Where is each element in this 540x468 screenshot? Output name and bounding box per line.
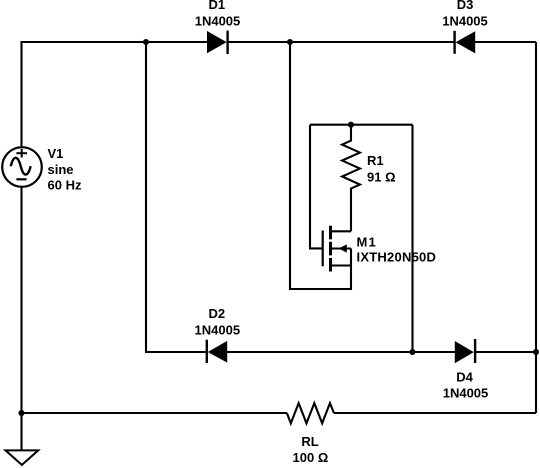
diode D4 (pointing right)	[455, 339, 475, 363]
svg-text:D1: D1	[208, 0, 225, 12]
transistor M1 (N-channel MOSFET)	[323, 226, 351, 272]
svg-text:RL: RL	[301, 434, 318, 449]
inner box left edge down to gate tap	[310, 125, 322, 249]
V1 plus mark	[16, 149, 27, 158]
svg-text:1N4005: 1N4005	[443, 386, 489, 401]
wire bottom rail right segment (right rail to RL)	[334, 412, 536, 414]
svg-text:D3: D3	[457, 0, 474, 12]
inner box right edge down to bottom-middle wire	[411, 125, 413, 352]
resistor RL	[287, 403, 334, 423]
wire from top rail down x=290 to M1 source	[290, 42, 351, 289]
V1 sine wave glyph	[11, 158, 31, 175]
diode D3 (pointing left)	[455, 31, 475, 54]
svg-text:M1: M1	[357, 235, 376, 250]
resistor R1	[342, 125, 360, 232]
svg-text:IXTH20N50D: IXTH20N50D	[357, 250, 436, 265]
wire V1 minus lead down to ground node	[20, 187, 22, 413]
wire ground stem	[20, 413, 22, 450]
wire bottom-middle (D2 anode to D4 anode)	[227, 351, 456, 353]
svg-text:1N4005: 1N4005	[442, 14, 488, 29]
node junction dot at (146,42)	[143, 39, 149, 45]
wire top rail left segment (V1+ to D1 anode)	[22, 42, 208, 147]
svg-text:V1: V1	[48, 146, 64, 161]
node junction dot at (21.5,413) ground node	[18, 410, 24, 416]
wire top rail middle segment (D1 cathode to D3 cathode)	[228, 41, 455, 43]
wire from top rail down x=146 to D2 cathode	[146, 42, 207, 352]
svg-text:100 Ω: 100 Ω	[293, 450, 329, 465]
node junction dot at (351,124.7)	[348, 122, 354, 128]
svg-text:91 Ω: 91 Ω	[367, 170, 396, 185]
wire bottom rail left segment (RL to ground node)	[22, 412, 287, 414]
wire top rail right segment (D3 anode to right rail)	[475, 41, 536, 43]
V1 minus mark	[16, 178, 26, 180]
svg-text:D4: D4	[456, 369, 473, 384]
diode D1 (pointing right)	[208, 31, 228, 54]
wire D4 cathode to right rail	[475, 351, 536, 353]
ground symbol	[6, 450, 39, 465]
inner box top edge (node N1)	[310, 124, 413, 126]
svg-text:D2: D2	[208, 306, 225, 321]
node junction dot at (536,352)	[533, 349, 539, 355]
diode D2 (pointing left)	[207, 340, 227, 363]
svg-text:60 Hz: 60 Hz	[48, 178, 82, 193]
svg-text:1N4005: 1N4005	[195, 14, 241, 29]
node junction dot at (412.5,352)	[409, 349, 415, 355]
voltage source V1 circle	[2, 147, 42, 187]
svg-text:R1: R1	[367, 153, 384, 168]
svg-text:sine: sine	[48, 162, 74, 177]
wire right rail (x=536 down)	[535, 42, 537, 413]
svg-text:1N4005: 1N4005	[195, 323, 241, 338]
node junction dot at (290,42)	[287, 39, 293, 45]
